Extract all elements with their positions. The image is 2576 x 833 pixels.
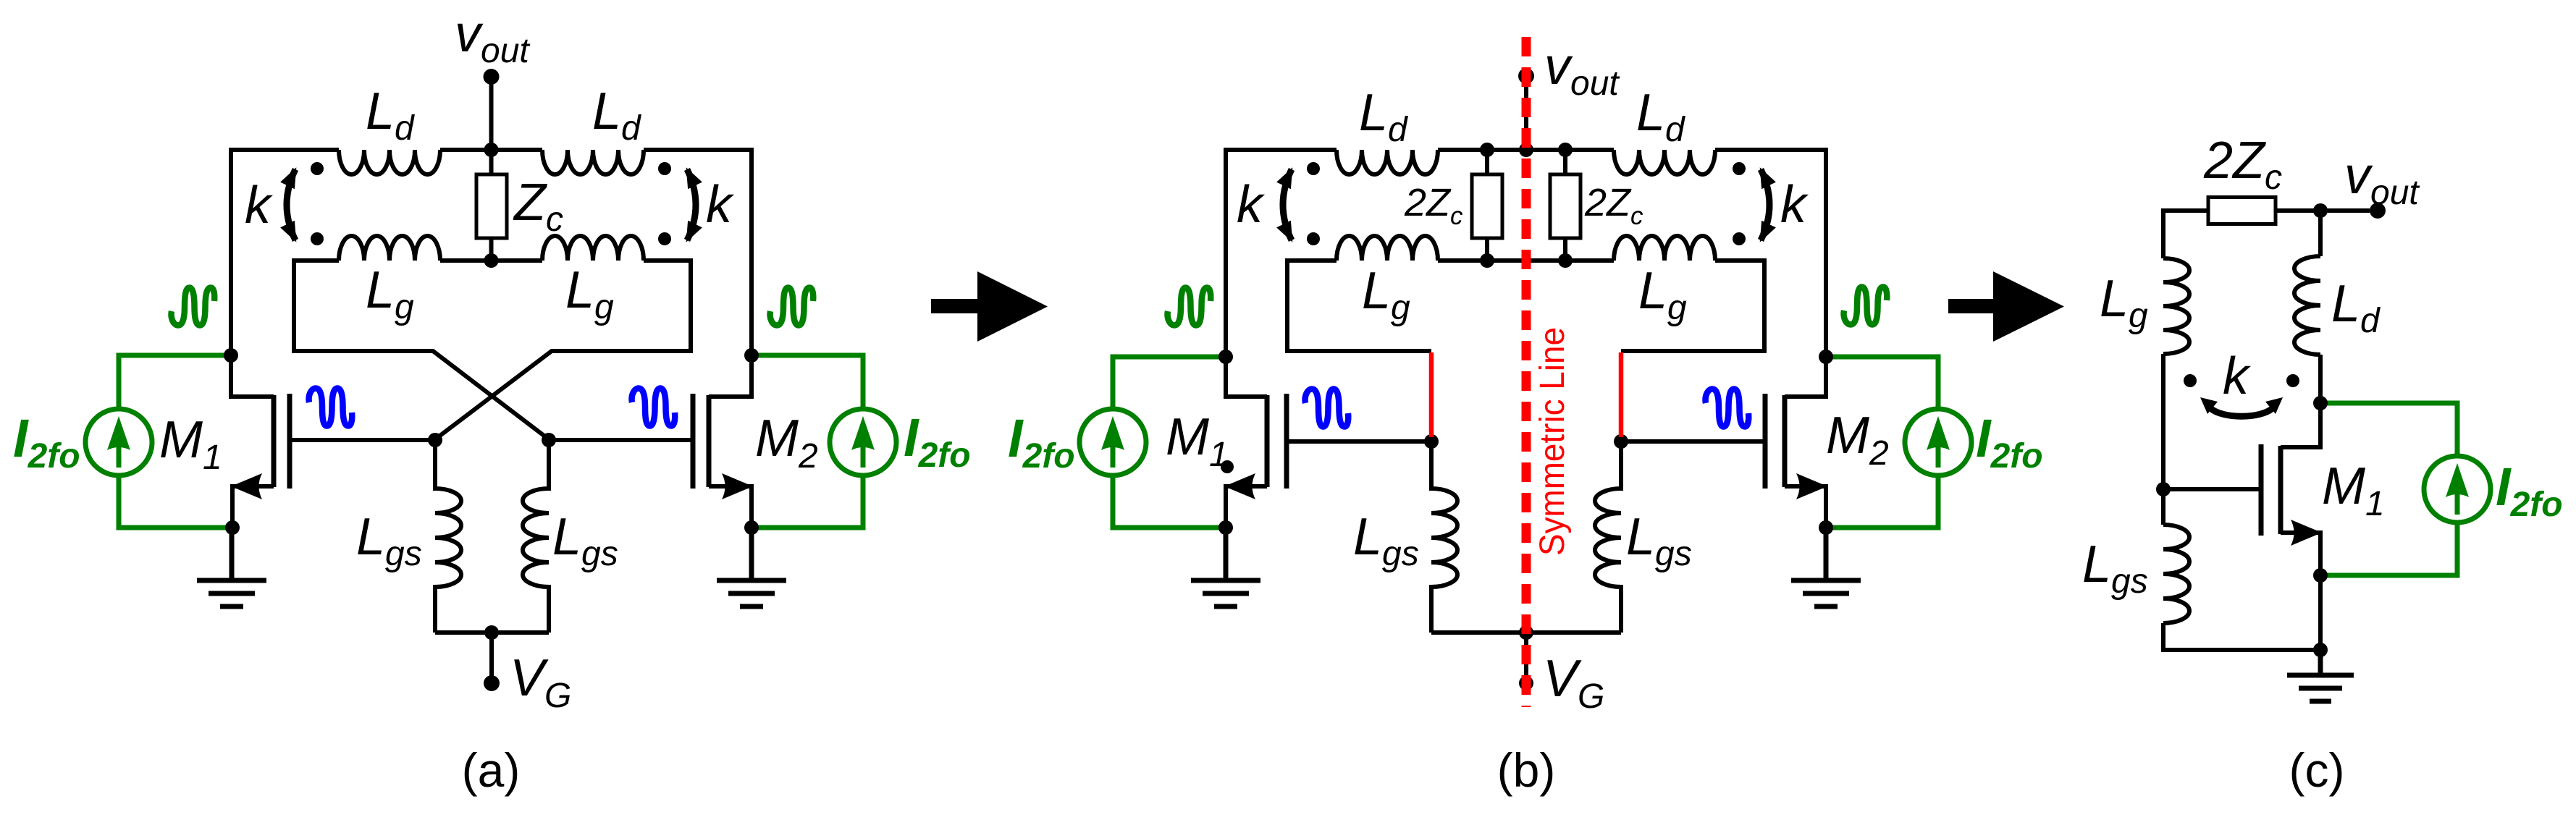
svg-text:Symmetric Line: Symmetric Line <box>1533 327 1572 556</box>
current source I2fo (b right) <box>1905 409 1971 475</box>
node drain M2 (b) <box>1819 350 1833 364</box>
wire Lg rail (a) <box>294 258 691 263</box>
wire top rail (b) <box>1226 148 1826 152</box>
wire right branch top (c) <box>2318 208 2323 256</box>
wire right branch to drain (c) <box>2281 355 2320 447</box>
inductor Lg (b right) <box>1614 236 1715 261</box>
current source I2fo (c) <box>2424 456 2491 523</box>
wire gate line M1 (a) <box>290 438 435 442</box>
transistor M1 (a) source arrow <box>231 473 262 499</box>
transistor M2 (a) channel bar <box>707 395 712 487</box>
coupling k arc (a left) <box>287 169 295 240</box>
resistor Zc (a) box <box>476 174 507 238</box>
svg-text:vout: vout <box>455 5 530 70</box>
svg-text:M1: M1 <box>1166 408 1229 474</box>
coupling dot Lg (c) <box>2184 374 2197 387</box>
node top rail center (a) <box>484 143 499 157</box>
node VG terminal (b) <box>1519 676 1533 690</box>
wire gate line M2 (a) <box>549 438 693 442</box>
current source I2fo (a right) wires <box>754 355 863 528</box>
node vout terminal (b) <box>1518 68 1534 84</box>
node VG rail (a) <box>484 625 499 640</box>
current source I2fo (a left) <box>85 409 152 475</box>
svg-text:(b): (b) <box>1497 743 1556 797</box>
coupling k arc (b left) <box>1283 169 1292 240</box>
transistor M1 (c) source arrow <box>2291 520 2322 546</box>
wire left rail (c) <box>2161 208 2165 258</box>
svg-text:I2fo: I2fo <box>904 407 971 475</box>
wire left rail mid (c) <box>2161 354 2165 525</box>
symmetric cut stub right (b) <box>1619 352 1624 437</box>
svg-text:Lgs: Lgs <box>1353 508 1419 573</box>
node gate M1 (b) <box>1424 434 1439 449</box>
svg-text:Lg: Lg <box>565 261 614 326</box>
current source I2fo (b right) wires <box>1828 357 1938 528</box>
inductor Lgs (b left) <box>1431 441 1457 633</box>
wire Lg right outer drop (b) <box>1621 258 1764 351</box>
svg-text:Ld: Ld <box>1359 84 1408 149</box>
node gate M1 (a) <box>428 433 442 447</box>
transistor M2 (a) source lead <box>709 486 752 528</box>
block arrow 1 <box>931 271 1048 342</box>
svg-text:Lgs: Lgs <box>552 508 618 573</box>
svg-text:vout: vout <box>2344 147 2420 212</box>
transistor M2 (b) channel bar <box>1782 395 1788 487</box>
inductor Lg (b left) <box>1337 236 1438 261</box>
coupling k arc (a right) <box>687 169 696 240</box>
node source M1 (c) <box>2313 568 2328 583</box>
node vout terminal (c) <box>2370 203 2386 219</box>
wire right rail (a) drain of M2 <box>709 148 752 397</box>
node source M1 (a) <box>225 520 240 535</box>
sine wave blue (a right) <box>632 389 675 426</box>
ground (b right) <box>1791 526 1861 606</box>
svg-text:I2fo: I2fo <box>2496 457 2563 524</box>
block arrow 2 <box>1948 271 2064 342</box>
node Lg rail left box (b) <box>1480 253 1494 268</box>
coupling dot Lg (b right) <box>1733 232 1746 245</box>
inductor Ld (c) <box>2294 256 2320 355</box>
node source M2 (a) <box>744 520 759 535</box>
wire Lg left outer drop (b) <box>1287 258 1431 351</box>
node source M1 (b) <box>1218 520 1233 535</box>
wire left rail bottom and ground rail (c) <box>2163 623 2320 650</box>
node gate M2 (b) <box>1614 434 1628 449</box>
svg-text:Ld: Ld <box>592 83 641 148</box>
transistor M1 (c) gate bar <box>2259 444 2264 536</box>
resistor 2Zc (b right) box <box>1550 174 1580 238</box>
current source I2fo (a left) wires <box>119 355 229 528</box>
sine wave green (b right) <box>1844 287 1887 325</box>
node drain M1 (a) <box>224 348 238 363</box>
node ground junction (c) <box>2313 643 2328 657</box>
transistor M1 (b) source arrow <box>1224 473 1255 499</box>
current source I2fo (c) wires <box>2323 403 2457 575</box>
wire cross-couple right Lg to M1 gate <box>435 258 691 439</box>
sine wave blue (b left) <box>1305 389 1349 427</box>
transistor M1 (a) source lead <box>232 486 274 528</box>
inductor Ld (a right) <box>542 150 644 174</box>
svg-text:2Zc: 2Zc <box>1404 181 1463 230</box>
node VG terminal (a) <box>484 675 500 691</box>
inductor Lg (a right) <box>542 236 644 261</box>
transistor M1 (b) gate bar <box>1284 394 1289 489</box>
coupling k arc (c) <box>2210 408 2273 416</box>
coupling k arc (b right) <box>1761 169 1769 240</box>
current source I2fo (b left) wires <box>1113 357 1224 528</box>
coupling dot Ld (a left) <box>311 162 324 175</box>
svg-text:VG: VG <box>510 649 571 715</box>
svg-text:2Zc: 2Zc <box>2203 132 2282 197</box>
node vout (c) <box>2313 203 2328 218</box>
svg-text:I2fo: I2fo <box>1976 408 2043 475</box>
node vout (b) stem <box>1524 76 1528 151</box>
inductor Lg (a left) <box>339 236 440 261</box>
node top rail left box (b) <box>1480 143 1494 157</box>
ground (a left) <box>197 526 266 606</box>
wire VG stem (a) <box>489 633 494 679</box>
node source M2 (b) <box>1819 520 1833 535</box>
svg-text:vout: vout <box>1544 38 1620 103</box>
coupling dot Ld (c) <box>2286 374 2299 387</box>
node VG rail (b) <box>1519 625 1533 640</box>
coupling dot Ld (a right) <box>658 162 671 175</box>
svg-text:Lg: Lg <box>1362 262 1410 327</box>
node gate M2 (a) <box>542 433 556 447</box>
node gate junction (c) <box>2156 482 2171 496</box>
resistor Zc (a) stems <box>489 150 494 261</box>
symmetric cut stub left (b) <box>1429 352 1434 437</box>
node vout terminal (a) <box>484 69 500 85</box>
coupling dot Lg (a right) <box>658 232 671 245</box>
svg-text:M2: M2 <box>1826 407 1889 473</box>
wire left rail (a) drain of M1 <box>231 148 274 397</box>
current source I2fo (a right) <box>830 409 896 475</box>
current source I2fo (b left) <box>1079 409 1146 475</box>
transistor M1 (a) channel bar <box>272 395 277 487</box>
transistor M1 (a) gate bar <box>287 394 292 489</box>
node top rail right box (b) <box>1558 143 1573 157</box>
svg-text:Zc: Zc <box>513 174 563 239</box>
resistor 2Zc (b right) stems <box>1563 150 1567 261</box>
wire right rail (b) drain of M2 <box>1785 148 1826 397</box>
svg-text:M1: M1 <box>2322 457 2385 523</box>
coupling dot Ld (b left) <box>1307 162 1320 175</box>
wire Lg rail (b) <box>1287 258 1764 263</box>
svg-text:M1: M1 <box>159 411 222 477</box>
coupling dot Lg (b left) <box>1307 232 1320 245</box>
svg-text:k: k <box>706 176 735 234</box>
svg-text:Lg: Lg <box>366 261 414 326</box>
wire gate line M2 (b) <box>1621 439 1765 444</box>
svg-text:I2fo: I2fo <box>1008 408 1075 475</box>
svg-text:(c): (c) <box>2289 743 2345 797</box>
inductor Ld (a left) <box>339 150 440 174</box>
svg-text:2Zc: 2Zc <box>1584 181 1643 230</box>
ground (b left) <box>1191 526 1260 606</box>
svg-text:k: k <box>1780 176 1809 234</box>
sine wave blue (a left) <box>309 389 353 426</box>
node Lg rail center (a) <box>484 253 499 268</box>
coupling dot Lg (a left) <box>311 232 324 245</box>
svg-text:Ld: Ld <box>366 83 415 148</box>
svg-text:Lg: Lg <box>1638 262 1687 327</box>
node drain M2 (a) <box>744 348 759 363</box>
ground (a right) <box>717 526 786 606</box>
symmetric line (b) red dashed <box>1522 37 1531 707</box>
transistor M1 (b) channel bar <box>1265 395 1270 487</box>
node vout (a) stem <box>489 77 494 151</box>
transistor M2 (b) source lead <box>1785 486 1826 528</box>
wire VG rail (a) <box>435 630 549 635</box>
stray dot after M1 label (b) <box>1221 460 1234 473</box>
node top rail center (b) <box>1519 143 1533 157</box>
svg-text:I2fo: I2fo <box>13 408 80 475</box>
svg-text:VG: VG <box>1543 650 1604 716</box>
inductor Ld (b right) <box>1614 150 1715 174</box>
inductor Lg (c) <box>2163 258 2189 354</box>
svg-text:Lg: Lg <box>2100 270 2148 335</box>
svg-text:k: k <box>245 177 274 234</box>
transistor M1 (b) source lead <box>1226 486 1267 528</box>
transistor M1 (c) channel bar <box>2278 446 2284 534</box>
svg-text:(a): (a) <box>462 743 521 797</box>
inductor Lgs (a right) <box>523 439 549 633</box>
inductor Lgs (b right) <box>1595 441 1621 633</box>
svg-text:Ld: Ld <box>1636 84 1685 149</box>
sine wave green (a left) <box>172 288 215 326</box>
wire gate line M1 (b) <box>1287 439 1431 444</box>
wire cross-couple left Lg to M2 gate <box>294 258 549 439</box>
resistor 2Zc (b left) stems <box>1485 150 1489 261</box>
wire left rail (b) drain of M1 <box>1226 148 1267 397</box>
wire top rail (a) <box>231 148 752 152</box>
svg-text:Ld: Ld <box>2331 275 2381 340</box>
sine wave green (b left) <box>1168 288 1211 326</box>
transistor M2 (b) gate bar <box>1763 394 1768 489</box>
node drain M1 (c) <box>2313 396 2328 410</box>
inductor Lgs (a left) <box>435 439 461 633</box>
svg-text:Lgs: Lgs <box>2082 536 2148 601</box>
ground (c) <box>2287 650 2354 701</box>
node drain M1 (b) <box>1218 350 1233 364</box>
node Lg rail right box (b) <box>1558 253 1573 268</box>
sine wave green (a right) <box>770 288 814 326</box>
svg-text:k: k <box>1237 176 1266 234</box>
inductor Ld (b left) <box>1337 150 1438 174</box>
transistor M2 (a) gate bar <box>691 394 696 489</box>
resistor 2Zc (c) box <box>2208 198 2276 224</box>
svg-text:k: k <box>2223 347 2252 405</box>
transistor M2 (b) source arrow <box>1796 473 1827 499</box>
transistor M2 (a) source arrow <box>722 473 753 499</box>
inductor Lgs (c) <box>2163 525 2189 623</box>
coupling dot Ld (b right) <box>1733 162 1746 175</box>
sine wave blue (b right) <box>1706 389 1749 427</box>
wire VG stem (b) <box>1524 633 1528 679</box>
wire VG rail (b) <box>1431 630 1621 635</box>
wire top rail (c) <box>2163 208 2370 213</box>
transistor M1 (c) source lead <box>2281 533 2320 650</box>
svg-text:M2: M2 <box>755 410 818 475</box>
wire gate line M1 (c) <box>2163 487 2261 491</box>
svg-text:Lgs: Lgs <box>1626 508 1692 573</box>
svg-text:Lgs: Lgs <box>356 508 422 573</box>
resistor 2Zc (b left) box <box>1472 174 1502 238</box>
